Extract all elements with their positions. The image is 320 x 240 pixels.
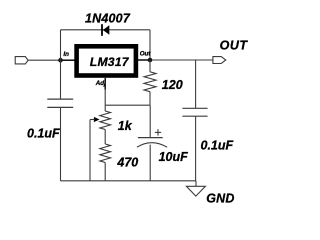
potentiometer RV1 1k xyxy=(90,111,111,181)
svg-text:OUT: OUT xyxy=(220,39,249,53)
wire OUT junction to OUT port xyxy=(150,59,213,61)
regulator U1 LM317 xyxy=(77,46,136,75)
svg-text:1N4007: 1N4007 xyxy=(85,12,131,26)
svg-text:Adj: Adj xyxy=(95,80,106,87)
svg-text:1k: 1k xyxy=(118,119,133,133)
svg-text:0.1uF: 0.1uF xyxy=(201,138,234,152)
svg-text:GND: GND xyxy=(206,192,234,206)
capacitor C2 0.1uF right xyxy=(182,60,207,181)
wire pot to 470 xyxy=(104,130,106,145)
svg-text:Out: Out xyxy=(140,51,152,58)
wire bottom ground rail xyxy=(61,180,197,182)
pin stub In xyxy=(61,59,76,61)
svg-text:10uF: 10uF xyxy=(159,150,189,164)
wire vertical from IN junction up to diode rail xyxy=(60,30,62,60)
wire vertical from rail down to OUT junction xyxy=(149,30,151,60)
wire top diode rail xyxy=(61,29,151,31)
node OUT junction xyxy=(148,58,153,63)
pin stub Out xyxy=(137,59,151,61)
capacitor C3 10uF electrolytic xyxy=(137,105,167,181)
capacitor C1 0.1uF left xyxy=(47,60,73,181)
diode D1 1N4007 (cathode bar left, triangle pointing left) xyxy=(102,24,109,36)
svg-text:In: In xyxy=(63,51,69,58)
wire Adj node horizontal xyxy=(105,104,150,106)
svg-text:120: 120 xyxy=(162,78,183,92)
ground xyxy=(186,181,205,196)
node IN junction xyxy=(58,58,63,63)
resistor R2 470 xyxy=(100,144,111,181)
wire Adj pin to pot xyxy=(104,90,106,112)
pin stub Adj xyxy=(104,78,106,90)
svg-text:470: 470 xyxy=(116,155,138,169)
resistor R1 120 xyxy=(144,60,156,105)
svg-text:LM317: LM317 xyxy=(90,55,130,69)
port OUT xyxy=(213,57,226,64)
svg-text:0.1uF: 0.1uF xyxy=(27,126,60,140)
port IN xyxy=(15,57,28,64)
wire IN port to junction xyxy=(28,59,60,61)
